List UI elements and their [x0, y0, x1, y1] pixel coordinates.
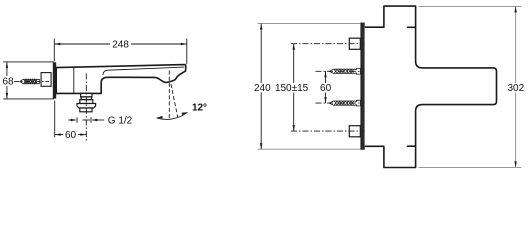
dim 302	[419, 6, 522, 167]
dim 240	[258, 24, 361, 150]
svg-text:G 1/2: G 1/2	[108, 116, 133, 127]
dim 60 (right view)	[325, 71, 327, 103]
hole centerline top	[291, 43, 372, 45]
svg-text:240: 240	[254, 83, 271, 94]
svg-text:302: 302	[507, 83, 524, 94]
wall flange	[53, 62, 56, 98]
fixing hole top	[349, 38, 360, 49]
screw bottom (right view)	[329, 100, 360, 106]
screw (left view)	[20, 79, 40, 83]
spout inner accent line	[103, 67, 184, 75]
G 1/2 label	[68, 117, 104, 122]
in-wall body outline	[365, 6, 497, 167]
12 degree annotation	[157, 71, 188, 120]
outlet stack (G 1/2 thread)	[77, 93, 96, 111]
nipple connector	[41, 73, 51, 87]
svg-text:60: 60	[320, 83, 332, 94]
wall plate (right view)	[360, 23, 364, 150]
tab interior line bottom	[407, 145, 416, 147]
svg-text:68: 68	[2, 77, 14, 88]
body divider line	[73, 67, 75, 93]
tab interior line top	[407, 26, 416, 28]
screw top centerline	[316, 70, 372, 72]
svg-text:60: 60	[65, 130, 77, 141]
svg-text:12°: 12°	[192, 103, 207, 114]
svg-text:150±15: 150±15	[275, 83, 309, 94]
screw top (right view)	[329, 69, 360, 75]
fixing hole bottom	[349, 126, 360, 137]
outlet centerline	[85, 74, 87, 141]
dim 60 (left view)	[55, 101, 87, 138]
dim 248 dimension line	[54, 39, 187, 65]
dim 68 dimension line	[3, 62, 54, 99]
hole centerline bottom	[291, 130, 372, 132]
screw bottom centerline	[316, 102, 372, 104]
svg-text:248: 248	[112, 40, 129, 51]
spout body outline	[56, 65, 186, 94]
screw centerline	[14, 80, 49, 82]
dim 150±15	[293, 44, 295, 131]
